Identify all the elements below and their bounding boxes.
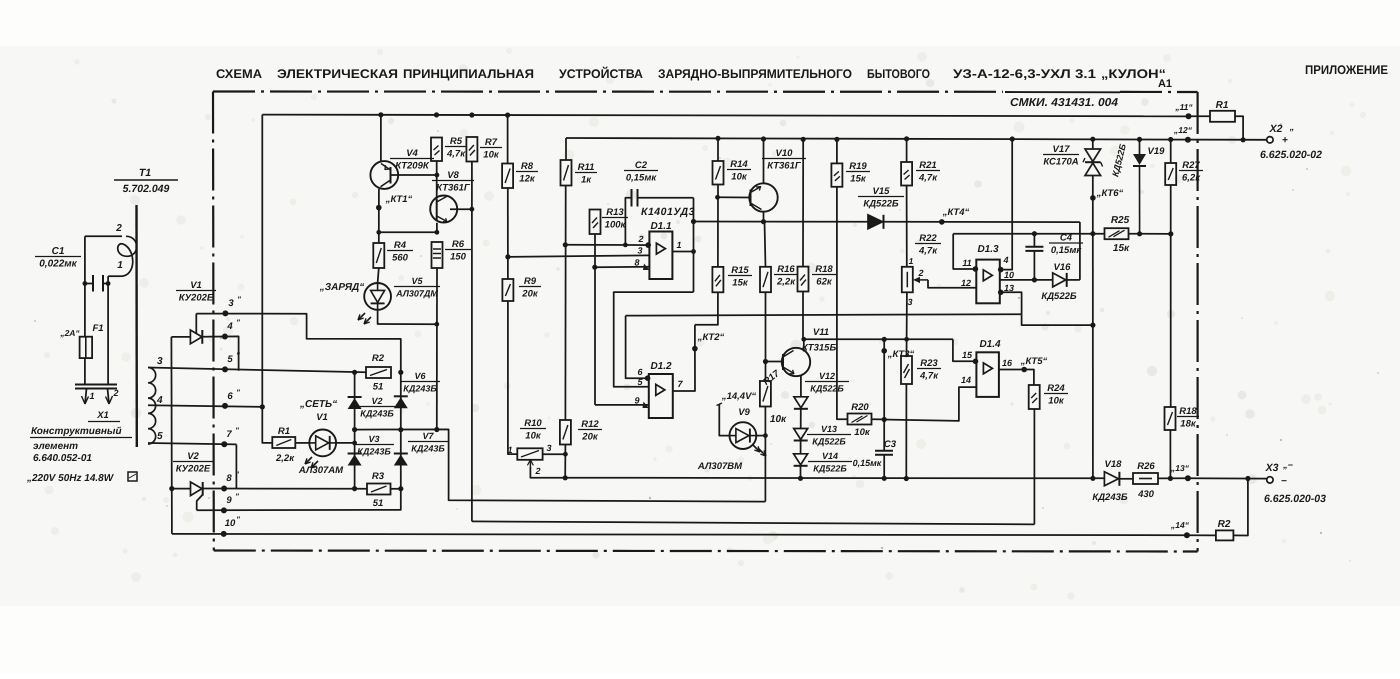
capacitor C3 bbox=[875, 450, 893, 452]
resistor R18b 18k bbox=[1165, 407, 1176, 430]
svg-text:2: 2 bbox=[115, 223, 122, 234]
svg-text:V3: V3 bbox=[368, 434, 379, 444]
svg-text:3: 3 bbox=[637, 246, 642, 256]
wire R27 down rail bbox=[1170, 185, 1172, 407]
border right bbox=[1196, 92, 1198, 552]
svg-text:„14,4V“: „14,4V“ bbox=[721, 391, 757, 402]
svg-text:15: 15 bbox=[962, 350, 973, 360]
svg-text:R15: R15 bbox=[731, 265, 749, 276]
wire V16 drop bbox=[1079, 222, 1081, 280]
wire R18b to output bbox=[1169, 430, 1171, 478]
svg-text:62к: 62к bbox=[816, 277, 833, 288]
opamp D1.1 pin3 wire bbox=[508, 255, 650, 257]
thyristor V1 bbox=[171, 336, 190, 338]
border left bbox=[212, 92, 215, 551]
svg-text:V8: V8 bbox=[447, 170, 459, 181]
svg-text:КД243Б: КД243Б bbox=[360, 409, 394, 419]
svg-text:10: 10 bbox=[225, 518, 236, 529]
svg-text:2: 2 bbox=[534, 466, 540, 476]
opamp D1.2 pin6 wire bbox=[626, 316, 649, 379]
svg-text:КУ202Е: КУ202Е bbox=[176, 464, 211, 475]
test point KT3 bbox=[881, 348, 887, 354]
svg-text:V6: V6 bbox=[414, 371, 426, 381]
terminal 4 bbox=[222, 334, 228, 340]
svg-text:ЗАРЯДНО-ВЫПРЯМИТЕЛЬНОГО: ЗАРЯДНО-ВЫПРЯМИТЕЛЬНОГО bbox=[658, 67, 852, 81]
svg-text:R1: R1 bbox=[1216, 100, 1229, 111]
svg-text:10к: 10к bbox=[770, 414, 787, 425]
resistor R26 430 bbox=[1133, 473, 1158, 484]
svg-text:4,7к: 4,7к bbox=[919, 371, 939, 382]
wire KT5 return bbox=[472, 521, 1035, 524]
wire pad4 jog bbox=[225, 336, 239, 370]
svg-text:V5: V5 bbox=[411, 276, 423, 286]
svg-text:100к: 100к bbox=[605, 220, 627, 231]
svg-text:3: 3 bbox=[157, 356, 163, 367]
opamp D1.3 bbox=[976, 260, 1000, 304]
resistor R17 10k bbox=[760, 381, 771, 407]
svg-text:R3: R3 bbox=[372, 471, 385, 482]
opamp D1.1 pin1 wire bbox=[672, 251, 693, 253]
svg-text:ЭЛЕКТРИЧЕСКАЯ: ЭЛЕКТРИЧЕСКАЯ bbox=[277, 67, 398, 81]
svg-text:C2: C2 bbox=[635, 160, 648, 171]
svg-text:150: 150 bbox=[450, 252, 467, 263]
svg-text:10к: 10к bbox=[525, 431, 542, 442]
svg-text:R10: R10 bbox=[524, 418, 542, 429]
LED V5 bbox=[378, 268, 379, 283]
diode V7 KD243 bbox=[394, 453, 408, 455]
wire bridge right leg bbox=[400, 372, 402, 494]
capacitor C2 bbox=[631, 189, 633, 207]
svg-text:V12: V12 bbox=[819, 371, 835, 381]
svg-text:": " bbox=[235, 492, 239, 501]
diode V14 bbox=[794, 454, 808, 465]
svg-text:V4: V4 bbox=[406, 148, 418, 159]
wire pad14 to R2 bbox=[1187, 534, 1216, 536]
wire output bus315 bbox=[626, 314, 1022, 315]
svg-text:8: 8 bbox=[634, 258, 639, 268]
svg-text:„: „ bbox=[1289, 122, 1295, 132]
svg-text:+: + bbox=[1282, 135, 1288, 146]
svg-text:КУ202Е: КУ202Е bbox=[179, 293, 214, 304]
svg-text:V16: V16 bbox=[1054, 262, 1072, 273]
svg-text:А1: А1 bbox=[1158, 78, 1172, 90]
svg-text:R18: R18 bbox=[815, 264, 833, 275]
svg-text:R5: R5 bbox=[450, 136, 463, 147]
pot R22 bbox=[902, 267, 913, 293]
opamp D1.1 pin8 wire bbox=[595, 266, 650, 268]
svg-text:КТ361Г: КТ361Г bbox=[436, 183, 471, 194]
resistor R3 51 bbox=[367, 484, 391, 495]
svg-text:„14“: „14“ bbox=[1170, 520, 1190, 530]
terminal 8 bbox=[221, 486, 227, 492]
svg-text:„КТ6“: „КТ6“ bbox=[1096, 188, 1124, 199]
wire bridge left leg bbox=[354, 372, 356, 488]
svg-text:R8: R8 bbox=[521, 161, 534, 172]
svg-text:12к: 12к bbox=[519, 174, 536, 185]
svg-text:4,7к: 4,7к bbox=[918, 246, 938, 257]
terminal 6 bbox=[222, 403, 228, 409]
diode V15 bbox=[868, 215, 883, 229]
svg-text:V10: V10 bbox=[776, 148, 794, 159]
svg-text:„220V 50Hz 14.8W: „220V 50Hz 14.8W bbox=[26, 473, 115, 484]
svg-text:элемент: элемент bbox=[33, 441, 78, 452]
svg-text:6.640.052-01: 6.640.052-01 bbox=[33, 453, 92, 464]
resistor R4 560 bbox=[373, 243, 384, 268]
svg-text:4,7к: 4,7к bbox=[918, 173, 938, 184]
svg-text:ПРИЛОЖЕНИЕ: ПРИЛОЖЕНИЕ bbox=[1305, 63, 1388, 77]
svg-text:КД522Б: КД522Б bbox=[812, 437, 846, 447]
wire winding4 to pad6 bbox=[148, 405, 262, 407]
resistor R23 4,7k bbox=[901, 356, 912, 384]
svg-text:D1.2: D1.2 bbox=[650, 361, 672, 372]
wire primary 1 bbox=[108, 275, 120, 277]
svg-text:„СЕТЬ“: „СЕТЬ“ bbox=[299, 399, 337, 410]
svg-text:2,2к: 2,2к bbox=[275, 453, 295, 464]
svg-text:R9: R9 bbox=[524, 276, 537, 287]
svg-text:R27: R27 bbox=[1182, 160, 1200, 171]
svg-text:−: − bbox=[1281, 476, 1287, 487]
test point KT1 bbox=[376, 205, 382, 211]
svg-text:„КТ1“: „КТ1“ bbox=[385, 194, 413, 205]
wire R2 to X3 line bbox=[1233, 479, 1248, 536]
svg-text:4,7к: 4,7к bbox=[446, 149, 466, 160]
svg-text:АЛ307АМ: АЛ307АМ bbox=[298, 465, 344, 476]
wire D1.1 to D1.2 pin5 bbox=[614, 292, 694, 387]
svg-text:14: 14 bbox=[961, 375, 971, 385]
wire R21 to R22 bbox=[906, 186, 908, 267]
svg-text:0,15мк: 0,15мк bbox=[853, 458, 882, 468]
diode V2 KD243 bbox=[348, 396, 362, 398]
thyristor V2 bbox=[172, 488, 191, 490]
svg-text:ПРИНЦИПИАЛЬНАЯ: ПРИНЦИПИАЛЬНАЯ bbox=[403, 67, 534, 81]
svg-text:1: 1 bbox=[117, 260, 123, 271]
svg-text:10к: 10к bbox=[1048, 396, 1065, 407]
svg-text:10: 10 bbox=[1004, 270, 1014, 280]
resistor R11 1k bbox=[565, 138, 567, 160]
wire R1 to bus2 bbox=[1235, 116, 1243, 140]
wire KT2 to R15 bbox=[695, 292, 718, 324]
svg-text:5: 5 bbox=[157, 431, 163, 442]
svg-text:КТ209К: КТ209К bbox=[395, 161, 430, 172]
resistor R5 4,7k bbox=[431, 138, 442, 162]
resistor R20 10k bbox=[848, 414, 872, 425]
opamp D1.3 pin11 wire bbox=[953, 234, 976, 269]
svg-text:V17: V17 bbox=[1053, 144, 1071, 155]
svg-text:БЫТОВОГО: БЫТОВОГО bbox=[867, 67, 930, 81]
svg-text:1: 1 bbox=[909, 256, 914, 266]
svg-text:Х3: Х3 bbox=[1265, 462, 1279, 474]
opamp D1.1 pin2 wire bbox=[565, 244, 649, 246]
svg-text:20к: 20к bbox=[581, 432, 599, 443]
svg-text:D1.3: D1.3 bbox=[977, 244, 999, 255]
connector X1 bbox=[75, 384, 117, 386]
svg-text:": " bbox=[237, 295, 241, 304]
wire R18 top bbox=[802, 139, 804, 266]
terminal 10 bbox=[221, 531, 227, 537]
wire R16-R17 junction bbox=[763, 359, 768, 364]
opamp D1.2 pin9 wire bbox=[595, 404, 649, 406]
resistor R13 100k bbox=[590, 210, 601, 235]
resistor R2 out bbox=[1216, 530, 1234, 540]
resistor R21 4,7k bbox=[901, 162, 912, 186]
svg-text:„КТ4“: „КТ4“ bbox=[942, 207, 970, 218]
wire mains left bbox=[84, 236, 86, 336]
svg-text:R19: R19 bbox=[849, 161, 867, 172]
resistor R1 2,2k bbox=[272, 437, 295, 448]
svg-text:V18: V18 bbox=[1105, 459, 1123, 470]
svg-text:10к: 10к bbox=[731, 172, 748, 183]
svg-text:20к: 20к bbox=[521, 289, 539, 300]
wire pin11 input net bbox=[953, 233, 1104, 235]
diode V3 KD243 bbox=[348, 453, 362, 455]
diode V13 bbox=[794, 429, 808, 440]
svg-text:2,2к: 2,2к bbox=[776, 277, 796, 288]
svg-text:R13: R13 bbox=[606, 207, 624, 218]
diode V6 KD243 bbox=[394, 395, 408, 397]
svg-text:R25: R25 bbox=[1111, 215, 1130, 226]
svg-text:R12: R12 bbox=[581, 419, 599, 430]
svg-text:R24: R24 bbox=[1047, 383, 1065, 394]
svg-text:Конструктивный: Конструктивный bbox=[31, 426, 122, 437]
svg-text:Х1: Х1 bbox=[96, 410, 109, 421]
svg-text:СХЕМА: СХЕМА bbox=[216, 67, 262, 81]
wire R18 bottom to collector bus bbox=[802, 292, 804, 340]
svg-text:": " bbox=[236, 318, 240, 327]
svg-text:4: 4 bbox=[226, 321, 233, 332]
resistor R18 62k bbox=[798, 267, 809, 292]
wire pad10 bus bbox=[172, 534, 1187, 535]
svg-text:V13: V13 bbox=[821, 424, 837, 434]
wire left supply rail bbox=[262, 115, 272, 443]
wire feedback to pin14 bbox=[884, 387, 976, 421]
capacitor C4 bbox=[1025, 246, 1043, 248]
test point KT2 bbox=[692, 346, 698, 352]
svg-text:8: 8 bbox=[226, 473, 232, 484]
svg-text:R14: R14 bbox=[730, 159, 748, 170]
svg-text:6: 6 bbox=[227, 391, 233, 402]
terminal 11 bbox=[1186, 113, 1192, 119]
opamp D1.3 pin13 wire bbox=[1000, 292, 1022, 314]
diode V12 bbox=[794, 397, 808, 408]
minus bus dots bbox=[798, 476, 803, 481]
svg-text:9: 9 bbox=[634, 396, 639, 406]
resistor R25 15k bbox=[1105, 228, 1129, 239]
svg-text:„12“: „12“ bbox=[1173, 125, 1193, 135]
svg-text:КС170А: КС170А bbox=[1043, 157, 1078, 168]
svg-text:Т1: Т1 bbox=[139, 167, 151, 179]
transistor V10 bbox=[718, 196, 750, 198]
top supply bus bbox=[262, 115, 1188, 117]
svg-text:1к: 1к bbox=[581, 175, 592, 186]
svg-text:С1: С1 bbox=[52, 246, 65, 257]
transistor V8 bbox=[430, 196, 457, 223]
svg-text:УСТРОЙСТВА: УСТРОЙСТВА bbox=[559, 66, 643, 81]
wire R14-R15 bbox=[717, 185, 719, 267]
svg-text:V1: V1 bbox=[190, 280, 202, 291]
wire R9 to R10 bbox=[508, 301, 517, 454]
wire V12-V13 bbox=[800, 409, 802, 429]
wire bridge mid bbox=[355, 429, 766, 501]
svg-text:R16: R16 bbox=[777, 264, 795, 275]
svg-text:R7: R7 bbox=[485, 137, 498, 148]
svg-text:15к: 15к bbox=[850, 174, 867, 185]
wire winding3 to pad5 bbox=[148, 368, 366, 373]
thyristor V1 gate bbox=[195, 314, 197, 334]
svg-text:7: 7 bbox=[226, 429, 232, 440]
connector X2 bbox=[1267, 137, 1273, 143]
svg-text:1: 1 bbox=[507, 445, 512, 455]
svg-text:„11“: „11“ bbox=[1174, 102, 1193, 112]
bus2 supply bbox=[566, 138, 1267, 140]
svg-text:6,2к: 6,2к bbox=[1182, 173, 1201, 184]
svg-text:R21: R21 bbox=[919, 160, 936, 171]
svg-text:4: 4 bbox=[156, 395, 163, 406]
svg-text:КТ361Г: КТ361Г bbox=[767, 161, 802, 172]
wire R8-R9 bbox=[507, 188, 509, 279]
svg-text:К1401УД3: К1401УД3 bbox=[641, 206, 695, 218]
svg-text:КД243Б: КД243Б bbox=[1092, 492, 1128, 503]
svg-text:R26: R26 bbox=[1137, 461, 1155, 472]
svg-text:КД243Б: КД243Б bbox=[403, 384, 437, 394]
diode V16 bbox=[1053, 273, 1066, 287]
wire R23 bottom bbox=[905, 384, 907, 479]
transistor V11 bbox=[782, 348, 810, 376]
svg-text:0,15мк: 0,15мк bbox=[626, 173, 658, 184]
transformer T1 core bbox=[135, 205, 138, 447]
resistor R2 51 bbox=[366, 367, 391, 378]
wire R22 wiper to pin12 bbox=[928, 280, 976, 288]
resistor R15 15k bbox=[712, 267, 723, 292]
svg-text:КД522Б: КД522Б bbox=[813, 464, 847, 474]
wire pad7 jog down bbox=[235, 444, 237, 488]
svg-text:R4: R4 bbox=[394, 240, 407, 251]
resistor R14 10k bbox=[713, 161, 724, 185]
wire R12 bottom bbox=[564, 445, 566, 478]
LED V1 bbox=[295, 442, 309, 444]
resistor R7 10k bbox=[466, 137, 477, 162]
svg-text:R23: R23 bbox=[920, 358, 938, 369]
svg-text:": " bbox=[235, 426, 239, 435]
wire pad8 to R3 bbox=[224, 488, 367, 490]
opamp D1.4 pin15 wire bbox=[953, 339, 977, 361]
wire R10 wiper to minus bus bbox=[530, 467, 1104, 479]
svg-text:V19: V19 bbox=[1148, 146, 1166, 157]
svg-text:5.702.049: 5.702.049 bbox=[123, 183, 170, 195]
test point KT6 bbox=[1092, 176, 1094, 479]
wire V13-V14 bbox=[800, 441, 802, 454]
svg-text:„КТ2“: „КТ2“ bbox=[697, 332, 725, 343]
wire pin13 jog to KT6 line bbox=[1022, 314, 1093, 325]
svg-text:4: 4 bbox=[1002, 255, 1008, 265]
svg-text:УЗ-А-12-6,3-УХЛ 3.1: УЗ-А-12-6,3-УХЛ 3.1 bbox=[953, 67, 1096, 81]
svg-text:C4: C4 bbox=[1060, 233, 1073, 244]
opamp D1.2 bbox=[649, 374, 673, 418]
resistor R24 10k bbox=[1029, 385, 1040, 409]
svg-text:С3: С3 bbox=[884, 439, 897, 450]
svg-text:R1: R1 bbox=[278, 426, 290, 437]
svg-text:3: 3 bbox=[546, 443, 551, 453]
wire comparator bus bbox=[694, 221, 869, 223]
svg-text:1: 1 bbox=[676, 240, 681, 250]
border bottom bbox=[214, 551, 1198, 552]
svg-text:СМКИ. 431431. 004: СМКИ. 431431. 004 bbox=[1010, 97, 1119, 109]
resistor R9 20k bbox=[502, 279, 513, 301]
svg-text:5: 5 bbox=[227, 354, 233, 365]
transistor V4 bbox=[380, 115, 382, 162]
wire R11-R12 bbox=[564, 186, 566, 421]
terminal 9 bbox=[221, 507, 227, 513]
svg-text:16: 16 bbox=[1002, 358, 1013, 368]
opamp D1.3 pin4 wire bbox=[1000, 139, 1012, 270]
svg-text:R22: R22 bbox=[919, 233, 937, 244]
svg-text:2: 2 bbox=[917, 268, 923, 278]
svg-text:КД243Б: КД243Б bbox=[357, 447, 391, 457]
svg-text:0,15мк: 0,15мк bbox=[1051, 245, 1083, 256]
svg-text:6.625.020-03: 6.625.020-03 bbox=[1264, 493, 1326, 505]
terminal 13 bbox=[1185, 475, 1191, 481]
svg-text:V2: V2 bbox=[187, 451, 199, 462]
svg-text:V9: V9 bbox=[738, 407, 750, 418]
terminal 12 bbox=[1185, 137, 1191, 143]
svg-text:R11: R11 bbox=[578, 162, 595, 173]
resistor R1 bbox=[1189, 115, 1211, 117]
svg-text:R6: R6 bbox=[452, 239, 465, 250]
svg-text:D1.4: D1.4 bbox=[979, 339, 1001, 350]
svg-text:51: 51 bbox=[373, 382, 384, 393]
wire emitter join bbox=[379, 231, 437, 233]
svg-text:12: 12 bbox=[961, 278, 971, 288]
terminal 5 bbox=[222, 366, 228, 372]
fuse F1 bbox=[80, 337, 93, 358]
svg-text:Х2: Х2 bbox=[1269, 123, 1283, 135]
wire KT3 line bbox=[883, 339, 885, 451]
connector X3 bbox=[1267, 477, 1273, 483]
wire R19 to R20 bbox=[837, 187, 848, 419]
svg-text:13: 13 bbox=[1004, 283, 1014, 293]
svg-text:6.625.020-02: 6.625.020-02 bbox=[1260, 149, 1322, 161]
svg-text:„КТ5“: „КТ5“ bbox=[1020, 356, 1048, 367]
terminal 14 bbox=[1184, 532, 1190, 538]
resistor R8 12k bbox=[502, 164, 513, 189]
svg-text:V2: V2 bbox=[371, 396, 382, 406]
border top bbox=[213, 90, 1003, 93]
svg-text:0,022мк: 0,022мк bbox=[39, 259, 77, 270]
wire R22 to R23 bbox=[906, 292, 908, 356]
svg-text:КД522Б: КД522Б bbox=[810, 384, 844, 394]
svg-text:3: 3 bbox=[228, 298, 234, 309]
wire R17 bottom bbox=[764, 407, 766, 502]
svg-text:R20: R20 bbox=[851, 402, 869, 413]
opamp D1.4 pin16 wire bbox=[999, 370, 1034, 386]
svg-text:9: 9 bbox=[226, 495, 232, 506]
terminal 7 bbox=[221, 441, 227, 447]
svg-text:15к: 15к bbox=[732, 278, 749, 289]
svg-text:„КУЛОН“: „КУЛОН“ bbox=[1101, 67, 1166, 81]
opamp D1.4 bbox=[976, 352, 999, 397]
opamp D1.1 bbox=[649, 232, 672, 280]
svg-text:„ЗАРЯД“: „ЗАРЯД“ bbox=[319, 282, 365, 293]
resistor R27 6,2k bbox=[1170, 140, 1172, 164]
resistor R19 15k bbox=[831, 163, 842, 186]
collector bus V11 bbox=[803, 338, 953, 340]
svg-text:15к: 15к bbox=[1113, 243, 1130, 254]
wire D1.1 output riser bbox=[693, 198, 695, 292]
test point KT5 bbox=[1021, 367, 1027, 373]
svg-text:10к: 10к bbox=[483, 150, 500, 161]
svg-text:560: 560 bbox=[392, 253, 409, 264]
svg-text:АЛ307ВМ: АЛ307ВМ bbox=[697, 461, 743, 472]
svg-text:F1: F1 bbox=[92, 323, 103, 334]
